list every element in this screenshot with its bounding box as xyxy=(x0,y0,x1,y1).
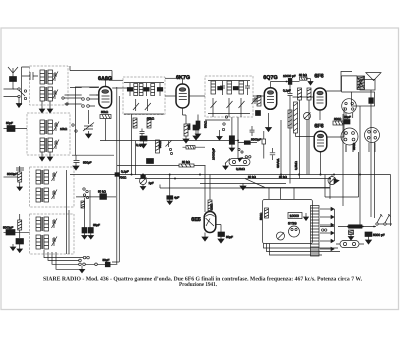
IF2 cap 1 xyxy=(220,81,225,95)
resistor lower left xyxy=(81,201,85,208)
field coil loop xyxy=(325,152,359,197)
6A8G tube xyxy=(99,80,112,108)
svg-text:5000 pF: 5000 pF xyxy=(373,233,385,237)
phase inverter resistor bar xyxy=(294,102,298,133)
wire lower switch bus xyxy=(76,196,100,198)
IF1 coupling capacitor blob xyxy=(144,88,150,92)
trimmer capacitor on T2 xyxy=(53,90,59,100)
svg-text:25µF: 25µF xyxy=(93,223,100,227)
cap at 6E5 xyxy=(218,229,225,243)
wire: left lower bus xyxy=(72,154,114,156)
ground arrows lower left xyxy=(12,244,14,247)
wire 6A8G cathode down xyxy=(105,119,107,141)
wire grid feed 6A8G xyxy=(70,87,99,89)
tone capacitor circle xyxy=(304,113,311,120)
antenna xyxy=(8,67,18,89)
wire GRAM vertical xyxy=(280,120,282,175)
wire: right verticals to power xyxy=(360,90,371,226)
oscillator transformer T8 xyxy=(36,235,49,249)
band coil box 2 (dashed) xyxy=(27,113,70,155)
wire: bus B+ xyxy=(70,175,391,227)
trimmer capacitor on T1 xyxy=(53,72,59,82)
padding resistor left of box3 xyxy=(4,166,25,191)
loudspeaker xyxy=(366,73,381,81)
svg-text:50kΩ: 50kΩ xyxy=(158,140,162,148)
grid resistor left of 6Q7G xyxy=(257,96,261,107)
resistor 500 ohm in supply xyxy=(265,208,269,218)
wire 6Q7G cathode ground xyxy=(268,113,270,128)
bypass blob capacitor xyxy=(140,136,147,148)
padding resistor left of box4 xyxy=(18,214,22,238)
cathode resistor 6F6 xyxy=(333,121,343,125)
wire detector verticals xyxy=(290,96,309,184)
band switch contacts upper xyxy=(4,88,27,108)
heater bus vertical xyxy=(334,209,336,241)
wire tone pot down xyxy=(306,120,308,175)
svg-text:300Ω: 300Ω xyxy=(334,117,342,121)
svg-text:50µF: 50µF xyxy=(226,235,233,239)
band coil box 3 (dashed) xyxy=(30,167,75,207)
IF2 coil 2 xyxy=(227,81,232,94)
svg-text:700Ω: 700Ω xyxy=(119,176,127,180)
IF1 secondary capacitor blob xyxy=(157,88,163,92)
socket circle 2 xyxy=(341,128,358,152)
svg-text:5000pF: 5000pF xyxy=(7,172,17,176)
junction dots power xyxy=(347,226,375,228)
capacitor screen IF1 xyxy=(140,129,145,137)
IF1 bottom rail xyxy=(124,113,164,115)
oscillator transformer T5 xyxy=(36,170,49,184)
resistor 10000 label box xyxy=(288,213,302,219)
wire 6K7G grid from IF1 xyxy=(165,95,176,97)
grid coupling capacitor lower xyxy=(288,84,314,97)
line capacitor 5000 pF xyxy=(365,232,372,244)
wire: grid wires xyxy=(75,87,99,95)
band coil box 1 (dashed) xyxy=(30,66,69,105)
wire: bottom power buses xyxy=(264,244,341,256)
svg-text:50kΩ: 50kΩ xyxy=(101,110,109,114)
wire 6K7G to IF2 xyxy=(189,95,205,97)
bus resistor on line xyxy=(179,164,194,167)
wire: bottom nested buses xyxy=(44,250,83,269)
blob at tone pot feed xyxy=(141,175,146,178)
RF transformer T2 xyxy=(40,87,53,101)
blob capacitors 25uF pair xyxy=(82,228,87,234)
IF1 primary coil xyxy=(134,84,143,96)
blob on B+ bus xyxy=(115,173,120,177)
detector blob stack xyxy=(229,136,234,145)
wire 6F6 stubs xyxy=(319,110,322,175)
IF2 trimmer arrows xyxy=(211,98,217,110)
wire: AVC bus with ground xyxy=(200,183,286,185)
output transformer core xyxy=(357,76,365,90)
IF1 secondary coil xyxy=(151,84,155,96)
svg-text:6F6: 6F6 xyxy=(314,124,323,130)
wire IF2 bottom drops xyxy=(213,110,241,117)
svg-text:50 kΩ: 50 kΩ xyxy=(248,175,257,179)
wires inside box4 down xyxy=(67,170,70,254)
IF2 coil 1 xyxy=(211,81,216,94)
wire mid bus left xyxy=(117,165,206,167)
wire: 6Q7G to pot xyxy=(237,117,239,159)
6F6 bottom tube xyxy=(314,131,327,151)
pilot lamp terminals xyxy=(322,229,324,231)
wire 6A8G top cap to IF1 xyxy=(109,79,123,81)
wire 6K7G top cap link xyxy=(165,77,176,79)
cathode resistor below 6A8G xyxy=(100,115,111,119)
blob capacitor 5000pF left of box4 xyxy=(6,230,15,236)
padder capacitor & ground xyxy=(73,155,80,170)
wire grid feed 2 xyxy=(65,94,99,96)
voltage selector block xyxy=(349,225,363,228)
wire: bus 2 xyxy=(135,179,330,200)
trimmer capacitor on T4 xyxy=(54,140,60,150)
6E5 magic eye tube xyxy=(204,212,216,233)
svg-text:0,5MΩ: 0,5MΩ xyxy=(236,167,246,171)
fuse holder xyxy=(336,241,364,248)
IF2 rails xyxy=(208,81,250,114)
IF transformer 1 (dashed box) xyxy=(123,77,165,115)
svg-text:500pF: 500pF xyxy=(83,161,92,165)
wire band switch vertical xyxy=(75,87,77,155)
svg-text:500Ω: 500Ω xyxy=(259,212,263,220)
svg-text:10kΩ: 10kΩ xyxy=(60,127,68,131)
volume potentiometer xyxy=(225,159,250,166)
cathode bypass cap 25uF xyxy=(344,120,350,125)
antenna series capacitor xyxy=(22,72,38,80)
power supply box outline xyxy=(263,200,313,244)
wire: middle bus xyxy=(100,140,238,142)
detector load resistor dark xyxy=(196,121,200,129)
svg-text:6A8G: 6A8G xyxy=(98,76,112,82)
trimmer capacitor on T6 xyxy=(52,190,58,200)
IF2 test point xyxy=(225,116,227,118)
svg-text:1MΩ: 1MΩ xyxy=(210,203,214,210)
svg-text:0,1µF: 0,1µF xyxy=(121,170,129,174)
detector small resistor xyxy=(262,131,266,159)
plate load resistors right of 6Q7G xyxy=(298,88,302,100)
cathode resistor 6K7G horizontal xyxy=(183,146,206,150)
volume pot slider arrow xyxy=(238,158,243,162)
6Q7G tube xyxy=(264,82,276,110)
detector contacts 2 xyxy=(238,148,240,150)
wire: IF1 feed verticals xyxy=(132,115,136,176)
socket circle 3 xyxy=(365,128,380,153)
wire right pair xyxy=(374,142,376,218)
IF1 trimmer arrows xyxy=(133,99,139,111)
wire OT primary xyxy=(342,76,358,92)
svg-text:50 kΩ: 50 kΩ xyxy=(182,160,191,164)
ground arrow 2 xyxy=(49,101,51,109)
svg-text:Produzione 1941.: Produzione 1941. xyxy=(179,281,217,288)
svg-text:6K7G: 6K7G xyxy=(176,75,190,81)
screen blob resistor xyxy=(193,125,199,140)
cathode resistor 50k vertical xyxy=(156,140,160,153)
svg-text:6Q7G: 6Q7G xyxy=(263,75,277,81)
wire power box drops xyxy=(269,188,294,199)
field coil box xyxy=(352,92,375,106)
IF2 coil 3 xyxy=(239,81,244,94)
band switch contacts right of box1 xyxy=(62,97,77,132)
capacitor 0.1uF det xyxy=(270,148,275,160)
output transformer winding box xyxy=(360,80,375,91)
blob capacitor 4uF lower left xyxy=(100,194,107,200)
RF transformer T1 xyxy=(40,70,53,84)
blob below grid resistor xyxy=(256,111,261,116)
ground arrow left of volume pot xyxy=(225,163,227,167)
wire IF2 to 6Q7G grid xyxy=(253,95,264,97)
IF2 cap blobs xyxy=(218,87,223,90)
svg-text:50kΩ: 50kΩ xyxy=(204,120,208,128)
band coil box 4 (dashed) xyxy=(30,214,75,254)
svg-text:0,1µF: 0,1µF xyxy=(283,89,291,93)
6F6 top tube xyxy=(314,88,327,110)
wire oscillator verticals xyxy=(85,190,91,228)
terminals on bottom bus xyxy=(83,256,86,259)
wire: 6F6 plate wires xyxy=(326,72,352,138)
svg-text:0,1µF: 0,1µF xyxy=(136,143,144,147)
svg-text:50µF: 50µF xyxy=(6,121,13,125)
wire: bus 3 xyxy=(245,187,330,189)
diagonal feed wire xyxy=(245,179,265,188)
wire IF2 grid return xyxy=(205,119,230,121)
svg-text:25µF: 25µF xyxy=(344,115,351,119)
svg-text:1µF: 1µF xyxy=(149,181,154,185)
tuning gang capacitor xyxy=(83,110,94,138)
svg-text:6F6: 6F6 xyxy=(314,74,323,80)
IF1 top rail xyxy=(124,82,164,84)
heater winding arrows xyxy=(320,207,334,250)
ground arrow below T1/T2 xyxy=(41,101,43,109)
svg-text:5Y3G: 5Y3G xyxy=(288,222,297,226)
svg-text:10000: 10000 xyxy=(290,214,300,218)
mains switch xyxy=(320,214,392,226)
RF transformer T4 xyxy=(40,138,53,152)
svg-text:350Ω: 350Ω xyxy=(352,142,356,150)
wire 6F6 lower grid xyxy=(296,133,314,137)
junction dots xyxy=(115,81,361,180)
svg-text:4µF: 4µF xyxy=(174,196,179,200)
ground arrow below box2 xyxy=(41,152,43,157)
svg-text:5000pF: 5000pF xyxy=(251,138,261,142)
AVC arrow cluster xyxy=(166,141,172,148)
trimmer capacitor on T5 xyxy=(52,172,58,182)
input blob capacitor left edge xyxy=(4,126,28,132)
trimmer capacitor on T3 xyxy=(54,122,60,132)
oscillator transformer T7 xyxy=(36,217,49,231)
ground below 6E5 xyxy=(204,233,206,238)
ground arrow det mid xyxy=(219,130,221,137)
tone pot circle xyxy=(140,175,147,191)
trimmer capacitor on T8 xyxy=(52,237,58,247)
detector contacts xyxy=(223,123,225,125)
svg-text:50 kΩ: 50 kΩ xyxy=(279,175,288,179)
rectifier socket circle xyxy=(342,99,357,121)
svg-text:50 kΩ: 50 kΩ xyxy=(98,190,107,194)
svg-text:5000pF: 5000pF xyxy=(3,226,13,230)
pot terminals xyxy=(245,156,247,158)
diode load resistor 0.5M xyxy=(288,110,292,128)
pot circle in supply xyxy=(277,232,285,240)
coupling capacitor 10000pF to 6F6 xyxy=(271,78,300,84)
power transformer core xyxy=(311,206,320,257)
IF2 cap 3 xyxy=(245,81,250,95)
screen resistors below IF1 xyxy=(133,118,137,128)
blob on tone bus xyxy=(147,159,154,164)
svg-text:0,5MΩ: 0,5MΩ xyxy=(294,160,298,170)
trimmer capacitor on T7 xyxy=(52,219,58,229)
transformer primary arrow xyxy=(305,213,307,217)
wire 6A8G plate to IF1 xyxy=(112,87,129,89)
oscillator transformer T6 xyxy=(36,188,49,202)
wire AVC drop with 0.1uF blob xyxy=(169,175,171,196)
grid leak resistor 6F6 xyxy=(300,77,314,85)
wire 6K7G cathode stub xyxy=(183,108,187,124)
detector diode capacitor with arrow xyxy=(252,96,259,104)
wire AVC bus 2 xyxy=(160,185,330,189)
svg-text:50µF: 50µF xyxy=(103,258,110,262)
grid terminals to 6A8G xyxy=(65,98,99,108)
5Y3G rectifier circle xyxy=(289,226,300,237)
svg-text:50 kΩ: 50 kΩ xyxy=(299,73,308,77)
AVC resistor 1M vertical xyxy=(183,124,189,143)
IF transformer 2 (dashed box) xyxy=(205,76,253,117)
capacitor detector 2 xyxy=(250,126,255,136)
wire oscillator feed top xyxy=(70,66,112,80)
blob 5000pF det xyxy=(244,141,250,145)
ground arrow bottom bus xyxy=(79,269,84,273)
IF1 primary capacitor blob xyxy=(127,88,133,92)
svg-text:10000pF: 10000pF xyxy=(212,148,216,160)
6K7G tube xyxy=(176,79,189,109)
hum pot circle xyxy=(328,175,339,185)
band switch contacts lower xyxy=(83,188,89,199)
svg-text:10000 pF: 10000 pF xyxy=(283,74,296,78)
wire: 6A8G down pair xyxy=(112,87,119,264)
blob capacitor 50uF on bottom bus xyxy=(85,262,117,267)
wire 6E5 target cap link xyxy=(216,225,221,230)
blob capacitor 2 left of box4 xyxy=(16,239,24,245)
svg-text:GRAM.: GRAM. xyxy=(276,158,280,168)
1M resistor above 6E5 xyxy=(205,166,212,213)
svg-text:50kΩ: 50kΩ xyxy=(147,117,155,121)
svg-text:1MΩ: 1MΩ xyxy=(187,123,191,130)
RF transformer T3 xyxy=(40,120,53,134)
svg-text:6E5: 6E5 xyxy=(191,217,201,223)
